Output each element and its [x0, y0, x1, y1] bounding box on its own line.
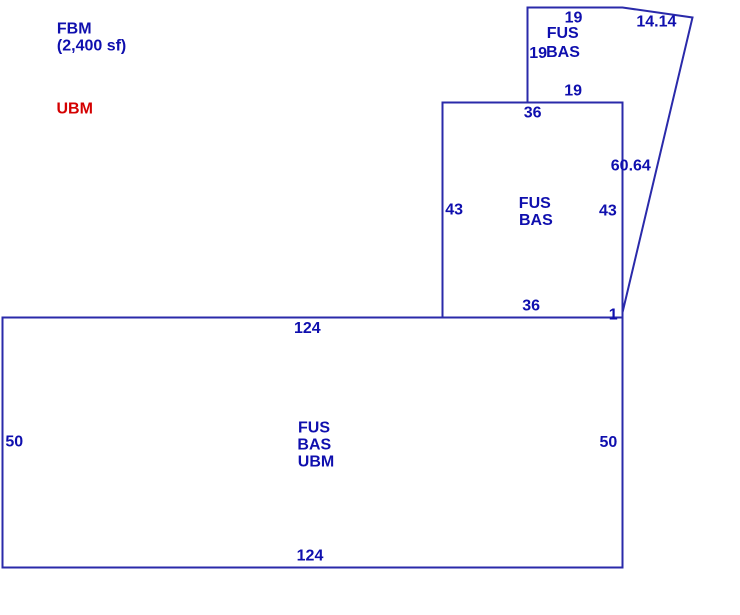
svg-text:124: 124 — [294, 320, 321, 337]
svg-text:BAS: BAS — [546, 44, 580, 61]
svg-text:19: 19 — [529, 45, 547, 62]
svg-text:36: 36 — [524, 105, 542, 122]
outline: main lower area FUS/BAS/UBM rectangle — [3, 318, 623, 568]
svg-text:60.64: 60.64 — [611, 158, 651, 175]
svg-text:FUS: FUS — [547, 25, 579, 42]
svg-text:FBM: FBM — [57, 20, 92, 37]
svg-text:124: 124 — [297, 547, 324, 564]
svg-text:50: 50 — [600, 434, 618, 451]
svg-text:BAS: BAS — [297, 437, 331, 454]
svg-text:UBM: UBM — [57, 101, 93, 118]
svg-text:14.14: 14.14 — [636, 14, 676, 31]
svg-text:50: 50 — [5, 434, 23, 451]
svg-text:36: 36 — [522, 298, 540, 315]
svg-text:1: 1 — [609, 306, 618, 323]
svg-text:UBM: UBM — [298, 454, 334, 471]
outline: top FUS/BAS polygon — [528, 8, 693, 318]
svg-text:(2,400 sf): (2,400 sf) — [57, 37, 126, 54]
svg-text:BAS: BAS — [519, 212, 553, 229]
svg-text:FUS: FUS — [298, 420, 330, 437]
outline: middle FUS/BAS rectangle — [443, 103, 623, 318]
svg-text:FUS: FUS — [519, 195, 551, 212]
svg-text:43: 43 — [599, 202, 617, 219]
svg-text:19: 19 — [564, 83, 582, 100]
svg-text:43: 43 — [445, 202, 463, 219]
